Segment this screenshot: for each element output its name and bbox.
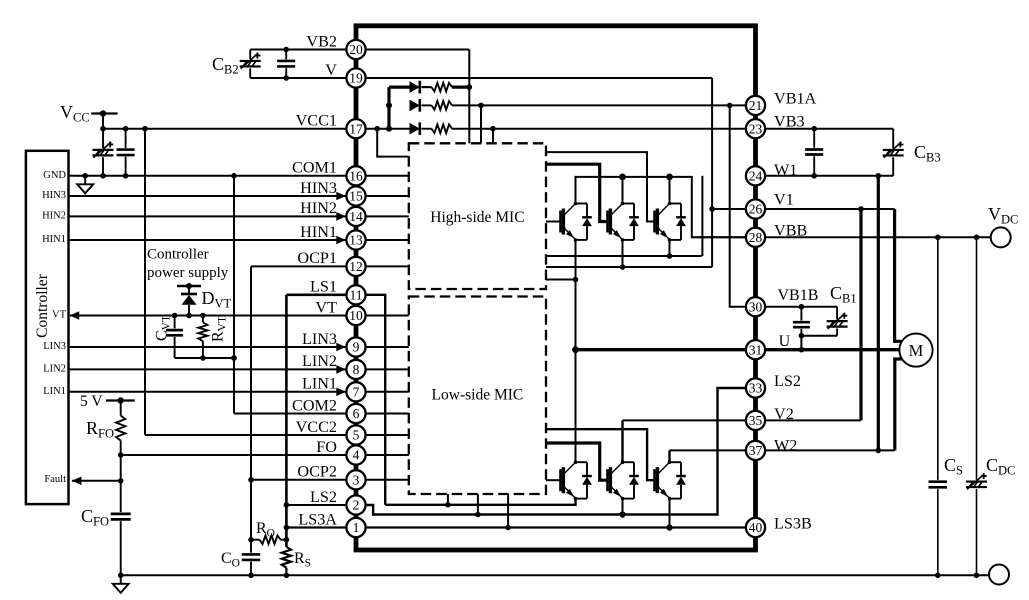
wire low gate feed W — [546, 429, 655, 480]
svg-text:24: 24 — [749, 169, 763, 184]
wire HIN1 stub — [356, 239, 409, 241]
svg-text:HIN2: HIN2 — [42, 210, 66, 221]
svg-text:U: U — [779, 333, 791, 350]
capacitor CB1 electrolytic leg — [836, 307, 838, 320]
pin 31 — [746, 340, 765, 359]
wire VCC1-to-VCC2 feed vertical — [144, 129, 146, 435]
wire LS1 row left — [286, 293, 356, 296]
svg-text:HIN3: HIN3 — [300, 179, 337, 197]
wire high gate feed W — [546, 152, 655, 221]
wire V2 row — [623, 419, 861, 421]
pin 16 — [346, 166, 365, 185]
IPM module outline (thick border) — [356, 26, 756, 550]
pin 13 — [346, 230, 365, 249]
pin 24 — [746, 166, 765, 185]
svg-text:W1: W1 — [774, 161, 797, 179]
ground symbol at controller GND — [84, 176, 86, 185]
wire MIC stub to LS3A row — [507, 494, 509, 528]
svg-text:17: 17 — [349, 121, 363, 136]
svg-text:M: M — [909, 341, 924, 360]
svg-text:35: 35 — [749, 413, 763, 428]
svg-text:11: 11 — [350, 288, 363, 303]
pin 2 — [346, 495, 365, 514]
svg-text:VBB: VBB — [774, 221, 807, 239]
wire low W emitter drop — [669, 499, 671, 528]
wire bootstrap vertical VB2 — [468, 50, 470, 144]
wire OCP1-OCP2 vertical — [250, 266, 252, 539]
wire LIN2 row — [69, 368, 357, 370]
wire LS1 shunt vertical — [285, 295, 288, 547]
wire COM2 row — [234, 413, 409, 415]
wire low V emitter drop — [622, 499, 624, 515]
wire high W emitter drop — [669, 240, 671, 256]
capacitor CS leg — [937, 237, 939, 480]
svg-text:LS1: LS1 — [310, 278, 337, 296]
wire COM1 stub — [356, 175, 409, 177]
pin 19 — [346, 68, 365, 87]
svg-text:V2: V2 — [774, 405, 794, 423]
svg-text:21: 21 — [749, 98, 763, 113]
wire RFO to CFO vertical — [120, 455, 122, 512]
pin 30 — [746, 297, 765, 316]
wire LS1 right branch — [356, 295, 385, 505]
wire VT stub — [356, 315, 409, 317]
svg-text:VCC1: VCC1 — [296, 112, 337, 130]
svg-text:FO: FO — [316, 438, 337, 456]
wire COM1-to-COM2 feed vertical — [233, 176, 235, 414]
wire HIN2 stub — [356, 215, 409, 217]
svg-text:2: 2 — [353, 498, 360, 513]
wire IGBT3 collector riser — [669, 177, 671, 204]
pin 23 — [746, 119, 765, 138]
svg-text:V: V — [325, 61, 337, 79]
controller box — [26, 151, 69, 504]
svg-text:20: 20 — [349, 42, 363, 57]
wire OCP2 row — [251, 479, 409, 481]
wire high V emitter drop — [622, 240, 624, 267]
capacitor CB3 electrolytic leg — [892, 129, 894, 148]
svg-text:4: 4 — [353, 448, 360, 463]
terminal bottom right — [989, 565, 1009, 585]
wire U row (pin31 to motor, thick) — [576, 348, 900, 351]
high-side IGBT W-phase with freewheel diode — [653, 211, 656, 233]
high-side IGBT V-phase with freewheel diode — [606, 211, 609, 233]
wire LIN2 stub — [356, 368, 409, 370]
high-side IGBT U-phase with freewheel diode — [559, 211, 562, 233]
wire VB1A to VB1B vertical — [730, 105, 756, 306]
svg-text:LS3A: LS3A — [298, 510, 337, 528]
wire VB1B row — [756, 306, 838, 308]
svg-text:GND: GND — [43, 170, 66, 181]
pin 33 — [746, 378, 765, 397]
wire IGBT2 collector riser — [622, 177, 624, 204]
Low-side MIC box (dashed) — [409, 297, 546, 495]
svg-text:3: 3 — [353, 473, 360, 488]
pin 26 — [746, 199, 765, 218]
capacitor CDC leg — [976, 237, 978, 479]
wire bootstrap vertical VB1A — [480, 105, 482, 143]
svg-text:High-side MIC: High-side MIC — [430, 209, 524, 226]
wire low gate feed V (thick) — [546, 443, 608, 480]
resistor RVT — [202, 316, 204, 323]
wire LS2 jog row — [356, 388, 756, 515]
wire pin20 row right — [356, 49, 469, 51]
svg-text:40: 40 — [749, 520, 763, 535]
wire GND/COM1 row — [69, 175, 357, 177]
svg-text:VB3: VB3 — [774, 113, 805, 131]
pin 3 — [346, 470, 365, 489]
wire low gate feed U — [546, 479, 561, 481]
wire LIN1 stub — [356, 391, 409, 393]
pin 35 — [746, 411, 765, 430]
svg-text:COM1: COM1 — [292, 159, 337, 177]
wire W1-W2 vertical (thick) — [877, 176, 880, 451]
wire OCP1 stub — [356, 265, 409, 267]
svg-text:LIN1: LIN1 — [302, 375, 337, 393]
capacitor CB1 ceramic leg — [800, 307, 802, 321]
svg-text:37: 37 — [749, 443, 763, 458]
wire bootstrap vertical VB3 — [492, 129, 494, 144]
pin 37 — [746, 441, 765, 460]
diode DVT (zener to controller supply) — [177, 285, 201, 287]
wire LS3A row (pin1 to pin40) — [286, 526, 755, 528]
svg-text:28: 28 — [749, 230, 763, 245]
svg-text:HIN1: HIN1 — [300, 223, 337, 241]
wire LS2 row left — [286, 504, 356, 506]
pin 7 — [346, 382, 365, 401]
capacitor VCC ceramic leg — [125, 129, 127, 148]
wire VT row — [70, 315, 356, 317]
wire OCP1 row left — [251, 265, 356, 267]
svg-text:Fault: Fault — [44, 474, 66, 485]
svg-text:8: 8 — [353, 362, 360, 377]
svg-text:5 V: 5 V — [80, 393, 103, 410]
low-side IGBT W-phase with freewheel diode — [653, 469, 656, 491]
wire high gate feed V (thick) — [546, 164, 608, 221]
resistor RFO — [120, 401, 122, 416]
svg-text:VB1B: VB1B — [778, 287, 819, 304]
svg-text:LIN1: LIN1 — [43, 386, 66, 397]
bootstrap diode row3 on VCC1/VB3 row — [356, 128, 410, 130]
resistor RS — [282, 547, 291, 568]
svg-text:12: 12 — [349, 259, 363, 274]
svg-text:15: 15 — [349, 189, 363, 204]
pin 10 — [346, 306, 365, 325]
wire VCC2 row — [145, 434, 409, 436]
svg-text:1: 1 — [353, 520, 360, 535]
terminal VDC — [991, 227, 1011, 247]
svg-text:HIN3: HIN3 — [42, 190, 66, 201]
pin 14 — [346, 207, 365, 226]
pin 6 — [346, 404, 365, 423]
capacitor CO — [242, 553, 261, 556]
svg-text:VCC2: VCC2 — [296, 418, 337, 436]
svg-text:LIN2: LIN2 — [302, 352, 337, 370]
svg-text:30: 30 — [749, 299, 763, 314]
svg-text:26: 26 — [749, 202, 763, 217]
svg-text:LS2: LS2 — [774, 372, 801, 390]
wire U sense row — [546, 279, 576, 281]
wire VB2 row (pin20 to CB2) — [250, 49, 356, 51]
wire FO row — [121, 454, 409, 456]
pin 11 — [346, 285, 365, 304]
wire ground bottom rail — [121, 574, 989, 576]
svg-text:16: 16 — [349, 169, 363, 184]
capacitor CVT — [174, 316, 176, 329]
wire collector bus VBB — [576, 177, 756, 237]
pin 40 — [746, 518, 765, 537]
wire MIC stub to LS1 row — [447, 494, 449, 505]
svg-text:power supply: power supply — [147, 265, 229, 281]
svg-text:W2: W2 — [774, 436, 797, 454]
wire VCC vertical — [102, 114, 104, 149]
pin 15 — [346, 186, 365, 205]
wire VB3 row right — [756, 128, 894, 130]
pin 8 — [346, 360, 365, 379]
wire low U emitter to LS1 row — [385, 499, 575, 505]
svg-text:LIN2: LIN2 — [43, 363, 66, 374]
svg-text:13: 13 — [349, 233, 363, 248]
svg-text:Controller: Controller — [147, 247, 209, 263]
svg-text:COM2: COM2 — [292, 396, 337, 414]
wire V2 riser — [621, 420, 623, 462]
pin 5 — [346, 425, 365, 444]
5V supply stub — [106, 399, 135, 401]
wire LIN3 stub — [356, 346, 409, 348]
capacitor CFO — [111, 512, 131, 515]
wire bootstrap feed vertical — [387, 87, 390, 129]
pin 4 — [346, 445, 365, 464]
svg-text:9: 9 — [353, 340, 360, 355]
High-side MIC box (dashed) — [409, 143, 546, 289]
wire W1 row right — [756, 175, 894, 177]
svg-text:LS3B: LS3B — [774, 515, 812, 533]
svg-text:OCP1: OCP1 — [297, 249, 337, 267]
pin 1 — [346, 518, 365, 537]
wire W1 riser — [701, 176, 703, 256]
wire W2 row — [670, 449, 895, 451]
svg-text:10: 10 — [349, 308, 363, 323]
svg-text:HIN1: HIN1 — [42, 234, 66, 245]
capacitor CB2 ceramic leg — [285, 50, 287, 60]
wire VCC1 into MIC box — [377, 129, 409, 157]
pin 20 — [346, 40, 365, 59]
capacitor CB2 electrolytic leg — [249, 50, 251, 60]
wire VBB row to VDC — [692, 236, 991, 238]
wire V1 row — [712, 208, 895, 210]
svg-text:LIN3: LIN3 — [43, 341, 66, 352]
svg-text:Controller: Controller — [34, 273, 51, 338]
svg-text:23: 23 — [749, 121, 763, 136]
wire LIN3 row — [69, 346, 357, 348]
bootstrap diode row1 — [389, 85, 410, 88]
wire pin19 row right — [356, 77, 712, 79]
wire HIN2 row — [69, 215, 357, 217]
wire Fault row — [72, 480, 121, 482]
wire high gate feed U — [546, 221, 561, 223]
wire HIN1 row — [69, 239, 357, 241]
wire HIN3 row — [69, 195, 357, 197]
svg-text:19: 19 — [349, 71, 363, 86]
wire U node vertical (high emitter to low collector) — [575, 240, 577, 462]
svg-text:Low-side MIC: Low-side MIC — [432, 387, 524, 404]
svg-text:VT: VT — [315, 298, 337, 316]
wire V phase to motor top (thick) — [895, 209, 902, 341]
wire W phase to motor bottom (thick) — [895, 359, 902, 450]
pin 17 — [346, 119, 365, 138]
wire MIC stub to LS2 row — [477, 494, 479, 515]
svg-text:6: 6 — [353, 406, 360, 421]
svg-text:V1: V1 — [774, 191, 794, 209]
wire V sense row — [546, 266, 712, 268]
svg-text:LS2: LS2 — [310, 488, 337, 506]
wire V1-V2 vertical (thick) — [859, 209, 862, 420]
wire W sense row — [546, 255, 702, 257]
resistor RO — [260, 535, 281, 544]
pin 9 — [346, 337, 365, 356]
capacitor CB3 ceramic leg — [813, 129, 815, 148]
svg-text:VB1A: VB1A — [774, 89, 817, 107]
svg-text:LIN3: LIN3 — [302, 330, 337, 348]
ground symbol bottom left — [118, 573, 124, 579]
wire HIN3 stub — [356, 195, 409, 197]
svg-text:31: 31 — [749, 342, 763, 357]
VCC supply stub — [91, 112, 117, 114]
svg-text:HIN2: HIN2 — [300, 199, 337, 217]
wire CB1 bottom rail — [801, 335, 837, 337]
wire LIN1 row — [69, 391, 357, 393]
svg-text:14: 14 — [349, 209, 363, 224]
svg-text:OCP2: OCP2 — [297, 463, 337, 481]
svg-text:5: 5 — [353, 428, 360, 443]
pin 21 — [746, 96, 765, 115]
wire V output riser (pin19/V1) — [711, 78, 713, 267]
wire V row (pin19 to CB2 bottom) — [250, 77, 356, 79]
svg-text:VB2: VB2 — [306, 32, 337, 50]
pin 28 — [746, 228, 765, 247]
motor M — [899, 334, 932, 367]
svg-text:VT: VT — [52, 310, 67, 321]
low-side IGBT V-phase with freewheel diode — [606, 469, 609, 491]
capacitor VCC electrolytic — [93, 149, 114, 151]
svg-text:7: 7 — [353, 385, 360, 400]
wire W2 riser — [668, 450, 670, 462]
wire VCC1 row — [103, 128, 356, 130]
low-side IGBT U-phase with freewheel diode — [559, 469, 562, 491]
svg-text:33: 33 — [749, 381, 763, 396]
wire CVT/RVT ground rail — [175, 357, 234, 359]
pin 12 — [346, 257, 365, 276]
bootstrap diode row2 — [410, 100, 420, 112]
